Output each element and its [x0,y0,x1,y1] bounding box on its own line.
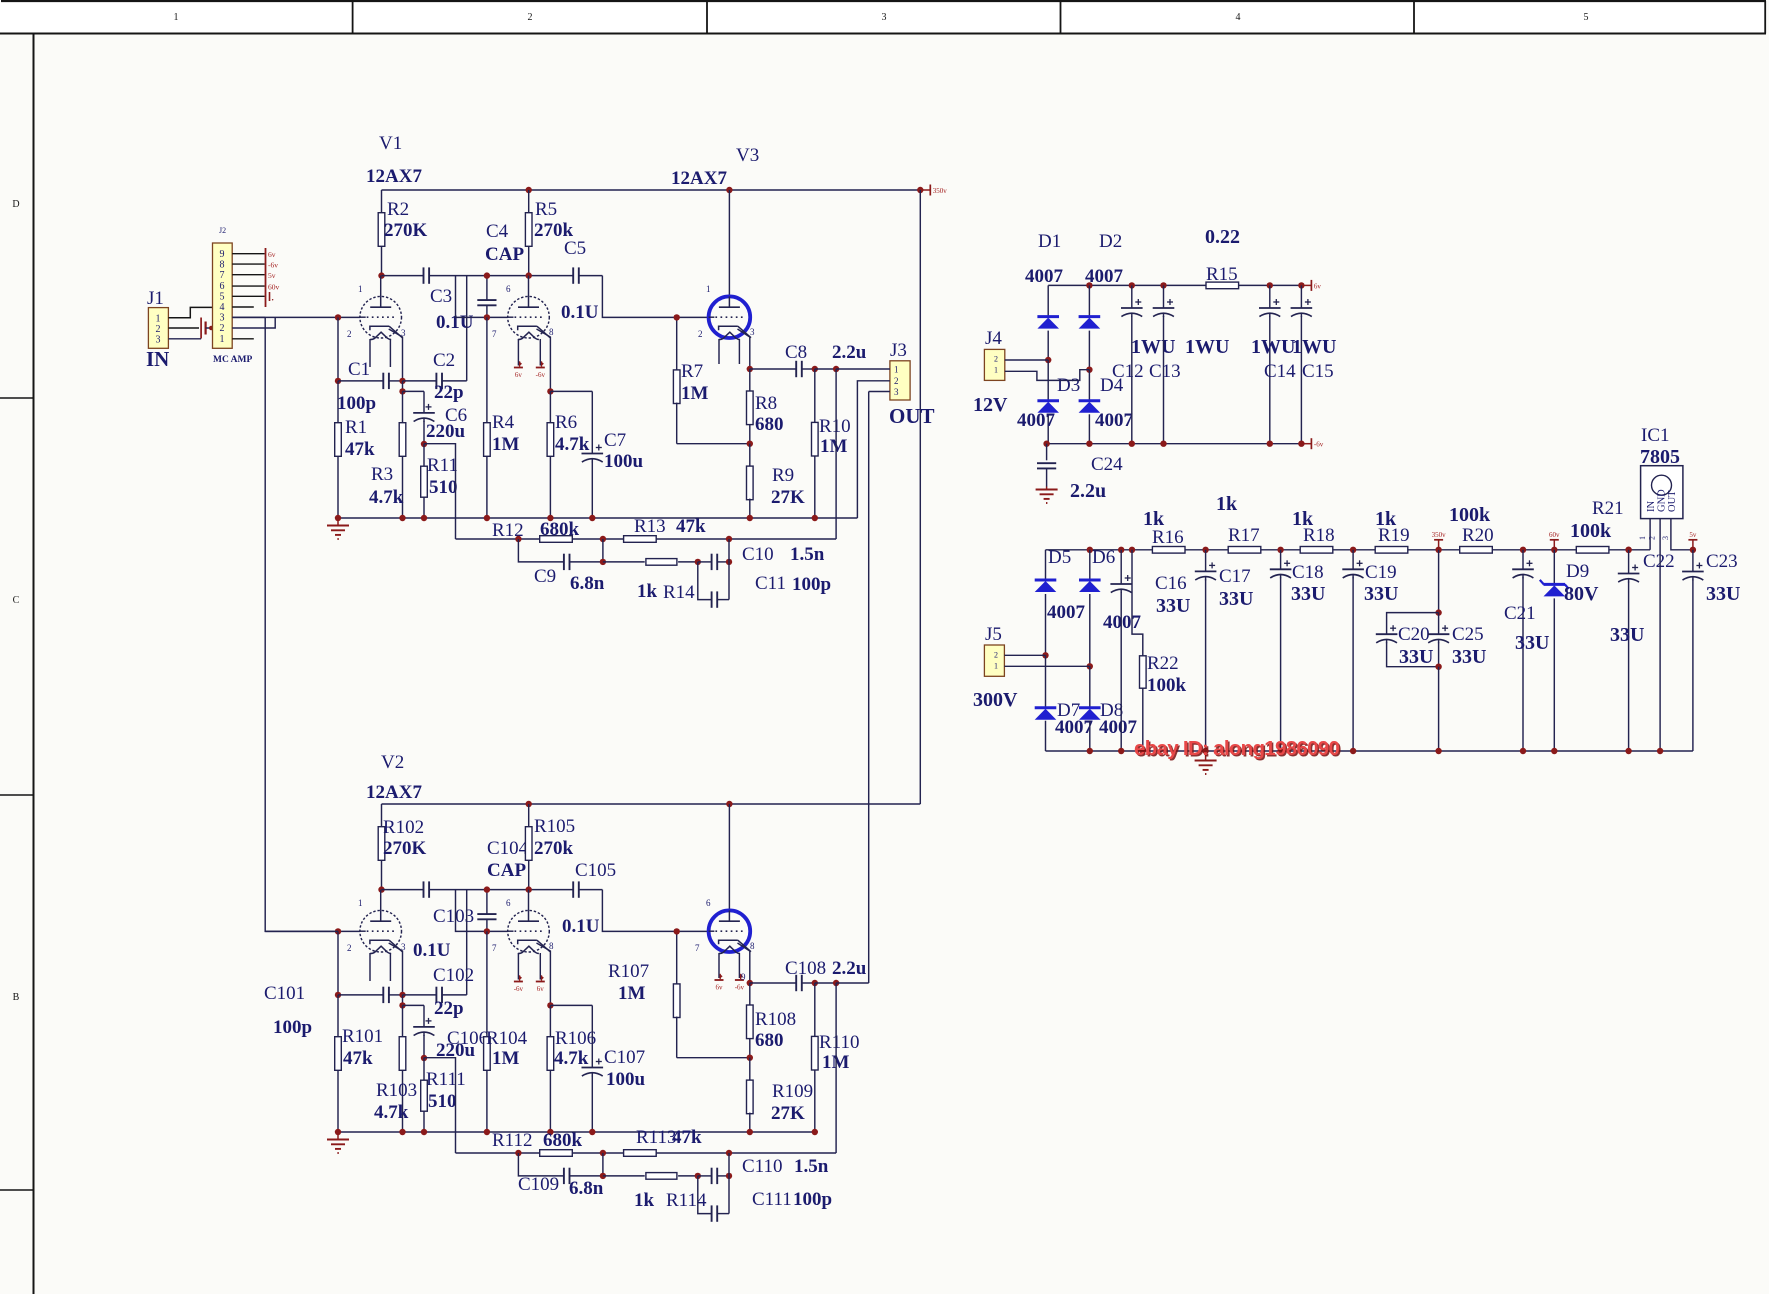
svg-text:C16: C16 [1155,573,1187,594]
terminal heater 6v [514,367,523,369]
wire B+ rail [382,803,921,805]
wire cathode 3 [738,329,750,369]
node output tap [833,366,839,372]
svg-text:2: 2 [347,329,352,339]
capacitor C5 [561,238,599,323]
svg-text:1M: 1M [820,436,848,457]
svg-text:D6: D6 [1092,547,1115,568]
drawing frame left border [0,34,34,1294]
resistor R108 [747,983,797,1058]
svg-text:1: 1 [706,284,711,294]
capacitor C14 1WU [1251,285,1296,443]
svg-text:R105: R105 [534,816,575,837]
wire cathode 3 [738,943,750,983]
terminal 350v [1438,540,1440,550]
node C6/R11 [421,441,427,447]
svg-text:3: 3 [750,327,755,337]
terminal 60v [1553,540,1555,550]
svg-text:-6v: -6v [1314,441,1324,449]
svg-text:C110: C110 [742,1156,782,1177]
terminal heater -6v [536,981,545,983]
svg-text:27K: 27K [771,487,805,508]
svg-text:9: 9 [220,249,225,260]
svg-text:CAP: CAP [487,860,526,881]
svg-text:1M: 1M [492,1048,520,1069]
node ground row junctions [399,1129,405,1135]
svg-text:R6: R6 [555,412,577,433]
terminal rail (red) at J2 [265,248,267,307]
svg-text:4.7k: 4.7k [369,487,404,508]
svg-text:R20: R20 [1462,525,1494,546]
node 5v [1690,547,1696,553]
svg-text:100p: 100p [337,393,376,414]
terminal 350v (top rail) [920,189,930,191]
svg-text:3: 3 [882,12,887,23]
node ground row junctions [399,515,405,521]
svg-text:6: 6 [506,284,511,294]
node R14/C10 [695,559,701,565]
wire to grid 2 [456,890,508,932]
resistor R13 [624,516,706,542]
svg-text:1: 1 [994,662,998,671]
svg-text:1: 1 [994,366,998,375]
svg-text:-6v: -6v [735,984,745,992]
resistor R12 [492,519,580,542]
wire PSU1 top rail [1048,284,1301,286]
resistor R20 100k [1449,504,1494,553]
wire anode row / coupling row [382,889,424,891]
svg-text:.: . [272,293,274,303]
svg-text:D2: D2 [1099,231,1122,252]
capacitor C10 [698,544,825,570]
ground [327,515,349,539]
svg-text:IC1: IC1 [1641,425,1670,446]
svg-text:R104: R104 [486,1028,528,1049]
svg-text:33U: 33U [1610,624,1644,646]
svg-text:2: 2 [528,12,533,23]
terminal 5v [1692,540,1694,550]
wire heater pins section B [517,953,519,980]
svg-text:D: D [12,199,19,210]
wire cathode 1 [389,329,403,381]
capacitor C104 [477,838,528,931]
svg-text:R13: R13 [634,516,666,537]
node R12 left [515,536,521,542]
svg-text:7805: 7805 [1640,446,1680,468]
resistor R106 [547,1005,596,1132]
connector J3 OUT [889,340,935,428]
resistor R14 [603,559,698,603]
wire J3 pin3 stub [869,391,890,393]
capacitor C20 33U [1376,613,1439,668]
svg-text:0.1U: 0.1U [562,916,600,937]
svg-text:7: 7 [492,329,497,339]
capacitor input coupling (red) [201,318,214,339]
svg-text:IN: IN [1646,501,1657,512]
svg-text:270K: 270K [384,220,428,241]
svg-text:R101: R101 [342,1026,383,1047]
svg-text:R21: R21 [1592,498,1624,519]
resistor R1 [335,381,375,518]
svg-text:R17: R17 [1228,525,1260,546]
capacitor C9 [518,539,604,594]
svg-text:1: 1 [220,334,225,345]
diode D3 4007 [1017,360,1080,444]
wire output to feedback [835,983,837,1153]
resistor R114 [603,1173,707,1211]
svg-text:C105: C105 [575,860,616,881]
wire J4 pin1 [1005,370,1090,381]
svg-text:2: 2 [220,323,225,334]
svg-text:3: 3 [156,335,161,346]
svg-text:C107: C107 [604,1047,645,1068]
svg-text:60v: 60v [268,283,280,292]
wire B+ drop to V2 rail [919,190,921,804]
resistor R2 [378,190,427,276]
node grid 2 [484,886,490,892]
capacitor C17 33U [1195,550,1254,751]
svg-text:1: 1 [358,898,363,908]
wire feedback tap [424,1058,456,1153]
wire J2 pin3 to V1 grid handled in stage; stub [232,316,265,318]
resistor R107 [673,931,749,1057]
svg-text:R114: R114 [666,1190,707,1211]
svg-text:R1: R1 [345,417,367,438]
svg-text:47k: 47k [343,1048,373,1069]
wire cathode 2 [537,943,551,1005]
node C6/R11 [421,1055,427,1061]
wire grid 1 input [265,930,360,932]
svg-text:J2: J2 [219,226,226,235]
svg-text:C20: C20 [1398,624,1430,645]
node grid 3 [674,928,680,934]
resistor R21 100k [1570,498,1624,553]
svg-text:0.1U: 0.1U [413,940,451,961]
svg-text:5: 5 [220,291,225,302]
svg-text:C2: C2 [433,350,455,371]
svg-text:R14: R14 [663,582,695,603]
svg-text:100u: 100u [604,451,644,472]
svg-text:47k: 47k [345,439,375,460]
capacitor C110 [698,1156,829,1184]
capacitor C12 1WU [1112,285,1175,443]
triode V3 section A [671,145,759,364]
resistor R112 [492,1130,583,1156]
wire IC1 pin2 GND [1659,519,1661,751]
wire J2 pin9 stub [232,253,264,255]
capacitor C24 2.2u [1037,444,1123,502]
wire J2 pin6 stub [232,285,264,287]
resistor R110 [812,983,860,1132]
resistor R22 100k [1132,550,1187,751]
resistor R111 [421,1058,466,1132]
node PSU1 bottom junctions [1043,441,1049,447]
node C8 out / R10 [812,980,818,986]
svg-text:4: 4 [1236,12,1241,23]
svg-text:33U: 33U [1291,583,1325,605]
wire feedback row [456,1152,541,1154]
node R12 right [600,536,606,542]
node bridge left [1045,357,1051,363]
capacitor C13 1WU [1149,285,1229,443]
svg-text:R10: R10 [819,416,851,437]
ground (PSU2) [1205,751,1207,761]
svg-text:6: 6 [220,281,225,292]
svg-text:6v: 6v [1314,282,1322,290]
wire J2 pin2 jog [232,317,275,328]
wire 350v node down [1438,550,1440,613]
svg-text:R16: R16 [1152,527,1184,548]
svg-text:V3: V3 [736,145,759,166]
wire to grid 2 [456,276,508,318]
capacitor C111 [698,1176,832,1222]
capacitor C19 33U [1342,550,1398,751]
svg-text:6v: 6v [268,250,276,259]
svg-text:8: 8 [549,327,554,337]
terminal heater 6v [514,981,523,983]
wire cathode 2 [537,329,551,391]
wire output to feedback [835,369,837,539]
svg-text:4007: 4007 [1047,602,1086,623]
wire C2 right branch [466,890,468,995]
node cathode 2 [547,388,553,394]
capacitor C1 [337,359,403,414]
wire J3 pin2 to ground row [857,381,890,518]
svg-text:-6v: -6v [268,261,278,270]
svg-text:33U: 33U [1219,588,1253,610]
capacitor C103 [413,881,474,961]
capacitor C101 [264,983,403,1038]
wire C10 right to feedback row [728,539,730,600]
svg-text:47k: 47k [676,516,706,537]
svg-text:C4: C4 [486,221,509,242]
resistor R15 0.22 [1205,226,1240,289]
wire heater pins section A [369,339,371,367]
wire IC1 pin3 OUT [1671,519,1693,550]
resistor R4 [484,317,520,518]
connector J2 MC AMP [213,226,253,365]
svg-text:510: 510 [428,1091,457,1112]
svg-text:C102: C102 [433,965,474,986]
svg-text:33U: 33U [1515,632,1549,654]
node R8/R9 [747,441,753,447]
wire cathode 1 down [402,381,404,392]
svg-text:1M: 1M [492,434,520,455]
svg-text:OUT: OUT [1667,490,1678,512]
wire C5 to grid 3 [602,890,708,932]
svg-text:5v: 5v [1689,531,1697,539]
svg-text:1: 1 [1638,536,1647,540]
svg-text:2: 2 [894,376,899,386]
triode V3 section B [608,804,755,1004]
node C9 right [600,1173,606,1179]
capacitor C106 [403,1005,489,1061]
svg-text:C104: C104 [487,838,529,859]
svg-text:1: 1 [156,314,161,325]
svg-text:1: 1 [174,12,179,23]
svg-text:C7: C7 [604,430,626,451]
wire J1 pin3 [168,338,201,340]
capacitor C18 33U [1270,550,1326,751]
node grid 2 [484,272,490,278]
resistor R113 [624,1127,702,1156]
svg-text:12AX7: 12AX7 [671,168,727,189]
svg-text:12AX7: 12AX7 [366,166,422,187]
resistor R102 [378,804,426,890]
svg-text:C12: C12 [1112,361,1144,382]
capacitor C108 [750,958,867,991]
wire J2 pin7 stub [232,274,264,276]
svg-text:8: 8 [750,941,755,951]
svg-text:C17: C17 [1219,566,1251,587]
node J5 pin1 node [1087,663,1093,669]
wire J2 pin4 stub [232,306,254,308]
svg-text:6: 6 [706,898,711,908]
node C10 right [726,559,732,565]
wire output node [815,982,836,984]
svg-text:1M: 1M [618,983,646,1004]
svg-text:R113: R113 [636,1127,676,1148]
wire V2 output to J3 pin3 [868,392,870,984]
svg-text:680k: 680k [540,519,580,540]
node J5 pin2 node [1042,652,1048,658]
resistor R103 [374,1005,417,1132]
svg-text:C15: C15 [1302,361,1334,382]
resistor R8 [747,369,784,444]
wire J1 pin2 [168,327,199,329]
diode D2 4007 [1079,231,1124,370]
svg-text:C1: C1 [348,359,370,380]
svg-text:4007: 4007 [1103,612,1142,633]
wire C2 right branch [466,276,468,381]
svg-text:100p: 100p [792,574,831,595]
svg-text:6.8n: 6.8n [569,1178,604,1199]
svg-text:6v: 6v [515,371,523,379]
svg-text:6: 6 [506,898,511,908]
svg-text:4: 4 [220,302,225,313]
svg-text:-6v: -6v [514,985,524,993]
diode D5 4007 [1035,547,1086,655]
svg-text:2.2u: 2.2u [832,958,867,979]
svg-text:1k: 1k [637,581,658,602]
svg-text:0.1U: 0.1U [561,302,599,323]
svg-text:R4: R4 [492,412,515,433]
node C1 row left [335,992,341,998]
resistor R11 [421,444,458,518]
resistor R9 [747,444,806,518]
svg-text:4007: 4007 [1025,266,1064,287]
svg-text:R110: R110 [819,1032,859,1053]
capacitor C21 33U [1504,550,1549,751]
svg-text:4007: 4007 [1085,266,1124,287]
svg-text:3: 3 [1661,536,1670,540]
wire J5 pin2 [1004,654,1045,656]
ground (C24) [1046,487,1048,490]
node B+ rail junctions [526,801,532,807]
svg-text:R103: R103 [376,1080,417,1101]
svg-text:2: 2 [994,651,998,660]
wire output row to J3 pin3 drop [836,982,869,984]
svg-text:6v: 6v [716,984,724,992]
svg-text:1k: 1k [1292,508,1314,530]
svg-text:4007: 4007 [1055,717,1094,738]
svg-text:R106: R106 [555,1028,596,1049]
svg-text:1k: 1k [1143,508,1165,530]
svg-text:2: 2 [156,324,161,335]
connector J4 12V [973,328,1008,416]
wire feedback tap [424,444,456,539]
svg-text:C23: C23 [1706,551,1738,572]
svg-text:1.5n: 1.5n [790,544,825,565]
diode D1 4007 [1025,231,1064,360]
svg-text:C109: C109 [518,1174,559,1195]
svg-text:C5: C5 [564,238,586,259]
svg-text:C18: C18 [1292,562,1324,583]
node feedback right [726,536,732,542]
svg-text:R9: R9 [772,465,794,486]
resistor R16 1k [1143,508,1185,553]
svg-text:R3: R3 [371,464,393,485]
svg-text:D5: D5 [1048,547,1071,568]
svg-text:V2: V2 [381,752,404,773]
node PSU2 chain junctions [1087,547,1093,553]
svg-text:12AX7: 12AX7 [366,782,422,803]
wire 350v node to bottom row [1438,667,1440,751]
node grid 1 [335,314,341,320]
capacitor C6 [403,391,468,443]
resistor R18 1k [1292,508,1335,553]
svg-text:1k: 1k [1216,493,1238,515]
svg-text:C8: C8 [785,342,807,363]
node anode 1 [378,272,384,278]
wire grid1 down / cathode net left [337,317,339,381]
svg-text:680k: 680k [543,1130,583,1151]
resistor R5 [525,190,573,276]
svg-text:1WU: 1WU [1292,336,1336,358]
node C1 row left [335,378,341,384]
svg-text:C103: C103 [433,906,474,927]
svg-text:7: 7 [220,270,225,281]
capacitor C7 [550,391,643,518]
svg-text:1M: 1M [681,383,709,404]
svg-text:1k: 1k [634,1190,655,1211]
svg-text:100k: 100k [1449,504,1491,526]
terminal -6v output [1301,443,1311,445]
svg-text:12V: 12V [973,394,1008,416]
capacitor C15 1WU [1291,285,1337,443]
node R14/C10 [695,1173,701,1179]
svg-text:1WU: 1WU [1185,336,1229,358]
svg-text:C14: C14 [1264,361,1296,382]
svg-text:2: 2 [994,355,998,364]
node C20/C25 top [1435,609,1441,615]
node C20/C25 bottom [1435,664,1441,670]
resistor R17 1k [1216,493,1261,553]
svg-text:IN: IN [146,347,169,371]
svg-text:ebay ID: along1986090: ebay ID: along1986090 [1134,737,1340,760]
wire heater pins section A [369,953,371,981]
node C22 top [1625,547,1631,553]
svg-text:5: 5 [1584,12,1589,23]
node cathode 2 [547,1002,553,1008]
svg-text:1k: 1k [1375,508,1397,530]
svg-text:350v: 350v [1432,531,1447,539]
node R8/R9 [747,1055,753,1061]
svg-text:2: 2 [1648,536,1657,540]
wire J5 pin1 [1004,665,1089,667]
svg-text:D9: D9 [1566,561,1589,582]
wire J3 pin1 [836,368,890,370]
